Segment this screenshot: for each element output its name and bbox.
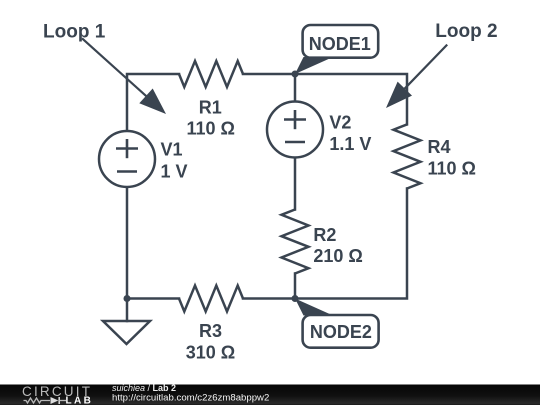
- resistor R1: [179, 61, 243, 139]
- svg-text:1.1 V: 1.1 V: [329, 134, 371, 154]
- ground: [103, 321, 150, 344]
- svg-text:NODE1: NODE1: [309, 34, 371, 54]
- svg-text:Loop 1: Loop 1: [43, 21, 106, 42]
- wire ground stub: [126, 299, 129, 322]
- footer bar: [0, 385, 540, 405]
- junction at NODE1: [292, 71, 299, 78]
- svg-text:R1: R1: [199, 98, 222, 118]
- wire R2 to NODE2: [294, 274, 297, 299]
- annotation Loop 1 arrow: [43, 21, 166, 114]
- wire bottom-left segment: [127, 297, 179, 300]
- svg-text:1 V: 1 V: [161, 161, 188, 181]
- voltage source V1: [99, 131, 188, 187]
- junction at ground node: [124, 295, 131, 302]
- annotation Loop 2 arrow: [386, 21, 498, 108]
- svg-text:R2: R2: [313, 225, 336, 245]
- CircuitLab logo: [22, 384, 93, 405]
- resistor R3: [179, 286, 243, 363]
- svg-text:110 Ω: 110 Ω: [186, 119, 234, 139]
- svg-text:310 Ω: 310 Ω: [186, 343, 235, 363]
- wire top-left segment: [127, 74, 179, 132]
- svg-text:http://circuitlab.com/c2z6zm8a: http://circuitlab.com/c2z6zm8abppw2: [112, 392, 269, 403]
- resistor R2: [282, 210, 363, 274]
- node NODE2 callout: [295, 299, 379, 348]
- svg-text:LAB: LAB: [66, 396, 94, 405]
- svg-text:110 Ω: 110 Ω: [428, 159, 476, 179]
- wire top-right segment: [243, 74, 407, 124]
- wire left lower segment: [126, 187, 129, 299]
- svg-text:V2: V2: [329, 113, 351, 133]
- node NODE1 callout: [295, 25, 378, 74]
- wire V2 to R2: [294, 158, 297, 210]
- voltage source V2: [267, 102, 371, 158]
- svg-text:R4: R4: [428, 137, 451, 157]
- svg-text:Loop 2: Loop 2: [435, 21, 497, 42]
- svg-text:NODE2: NODE2: [310, 322, 372, 342]
- wire NODE1 to V2: [294, 74, 297, 102]
- svg-text:210 Ω: 210 Ω: [313, 246, 362, 266]
- svg-text:R3: R3: [199, 321, 222, 341]
- wire R4 to bottom-right corner: [243, 189, 407, 299]
- resistor R4: [394, 124, 476, 188]
- svg-text:V1: V1: [161, 140, 183, 160]
- junction at NODE2: [292, 295, 299, 302]
